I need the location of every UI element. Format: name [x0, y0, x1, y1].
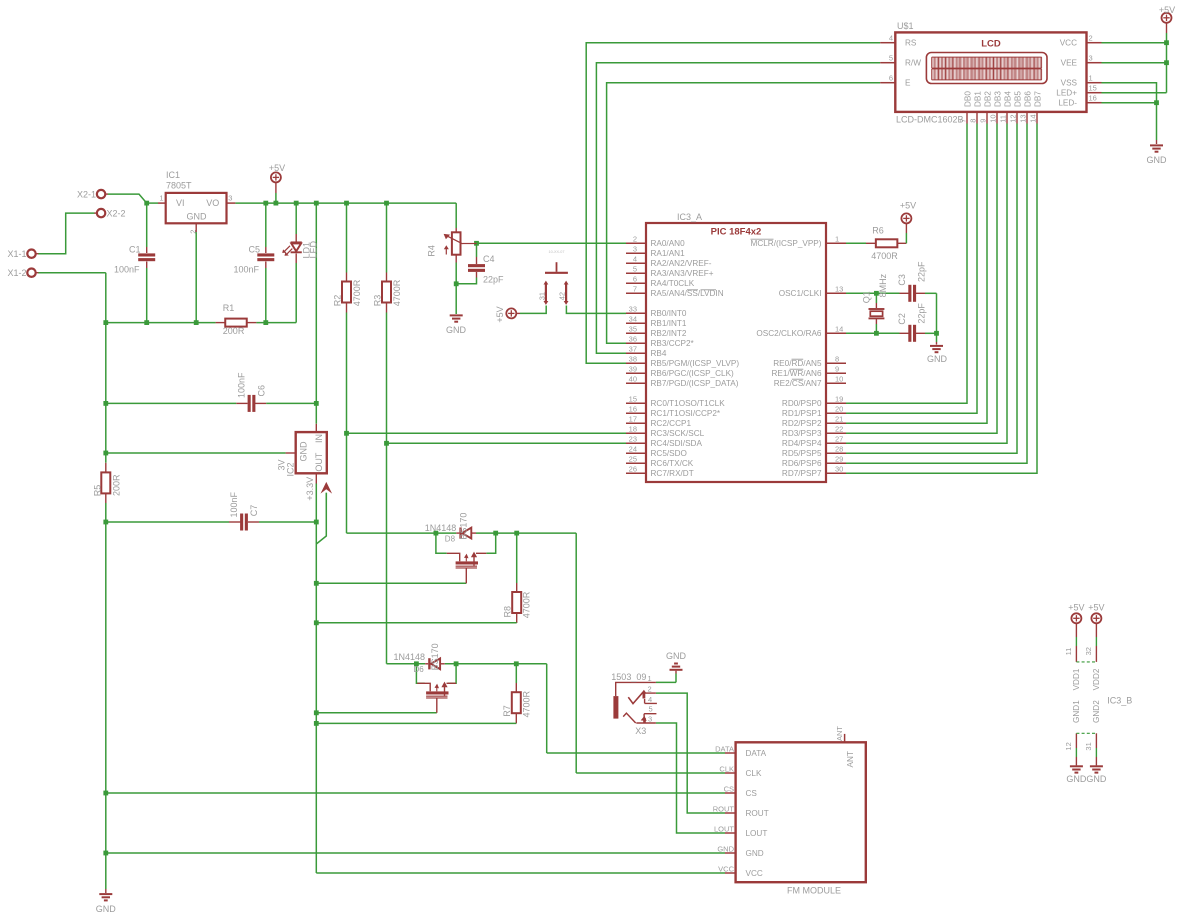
- svg-text:3: 3: [633, 245, 637, 254]
- svg-text:R8: R8: [502, 606, 512, 618]
- svg-text:VO: VO: [206, 198, 219, 208]
- svg-text:2: 2: [648, 685, 652, 694]
- svg-text:14: 14: [1029, 114, 1038, 122]
- svg-text:10: 10: [835, 375, 843, 384]
- svg-text:U$1: U$1: [897, 21, 914, 31]
- svg-text:35: 35: [629, 325, 637, 334]
- svg-text:42: 42: [558, 292, 567, 300]
- svg-text:RB5/PGM/(ICSP_VLVP): RB5/PGM/(ICSP_VLVP): [651, 359, 740, 368]
- svg-text:LOUT: LOUT: [714, 824, 734, 833]
- svg-text:8: 8: [969, 119, 978, 123]
- svg-text:3: 3: [228, 194, 232, 203]
- svg-text:BS170: BS170: [430, 643, 440, 670]
- svg-text:IC3_B: IC3_B: [1107, 696, 1132, 706]
- svg-text:18: 18: [629, 425, 637, 434]
- svg-text:1503_09: 1503_09: [611, 672, 646, 682]
- svg-text:RB1/INT1: RB1/INT1: [651, 319, 687, 328]
- svg-text:GND: GND: [1066, 774, 1087, 784]
- svg-text:1N4148: 1N4148: [393, 652, 425, 662]
- svg-text:5: 5: [633, 265, 637, 274]
- svg-text:24: 24: [629, 445, 637, 454]
- svg-text:1: 1: [835, 235, 839, 244]
- svg-text:12: 12: [1064, 742, 1073, 750]
- svg-text:LED-: LED-: [1058, 99, 1077, 108]
- svg-text:4: 4: [889, 34, 893, 43]
- svg-text:GND: GND: [666, 651, 687, 661]
- svg-text:31: 31: [537, 292, 546, 300]
- svg-text:+5V: +5V: [495, 306, 505, 322]
- svg-text:CS: CS: [724, 784, 734, 793]
- svg-text:GND2: GND2: [1092, 700, 1101, 723]
- svg-text:RA2/AN2/VREF-: RA2/AN2/VREF-: [651, 259, 712, 268]
- svg-text:C3: C3: [897, 274, 907, 286]
- svg-text:CLK: CLK: [719, 764, 734, 773]
- svg-text:4700R: 4700R: [871, 251, 898, 261]
- svg-text:26: 26: [629, 465, 637, 474]
- svg-text:R4: R4: [427, 245, 437, 257]
- svg-text:ANT: ANT: [846, 751, 855, 767]
- svg-text:30: 30: [835, 465, 843, 474]
- svg-text:37: 37: [629, 345, 637, 354]
- svg-text:RD5/PSP5: RD5/PSP5: [782, 449, 822, 458]
- svg-text:E: E: [905, 79, 911, 88]
- svg-text:DB4: DB4: [1004, 91, 1013, 107]
- svg-text:DB0: DB0: [964, 91, 973, 107]
- svg-text:DB2: DB2: [984, 91, 993, 107]
- svg-text:7805T: 7805T: [166, 181, 192, 191]
- svg-text:16: 16: [1089, 94, 1097, 103]
- svg-text:9: 9: [979, 119, 988, 123]
- svg-text:DATA: DATA: [715, 744, 734, 753]
- svg-text:D8: D8: [445, 534, 456, 543]
- svg-text:22pF: 22pF: [483, 275, 504, 285]
- svg-text:23: 23: [629, 435, 637, 444]
- svg-text:BS170: BS170: [459, 513, 469, 540]
- svg-text:VDD1: VDD1: [1072, 668, 1081, 690]
- svg-text:RC3/SCK/SCL: RC3/SCK/SCL: [651, 429, 705, 438]
- svg-text:RD4/PSP4: RD4/PSP4: [782, 439, 822, 448]
- svg-text:RA4/T0CLK: RA4/T0CLK: [651, 279, 695, 288]
- svg-text:5: 5: [649, 705, 653, 714]
- svg-text:12: 12: [1009, 114, 1018, 122]
- svg-text:200R: 200R: [223, 326, 245, 336]
- svg-text:RC7/RX/DT: RC7/RX/DT: [651, 469, 694, 478]
- svg-text:RD0/PSP0: RD0/PSP0: [782, 399, 822, 408]
- svg-text:100nF: 100nF: [233, 265, 259, 275]
- svg-text:20: 20: [835, 405, 843, 414]
- svg-text:6: 6: [889, 74, 893, 83]
- svg-text:28: 28: [835, 445, 843, 454]
- svg-text:+5V: +5V: [1159, 5, 1175, 15]
- svg-text:X2-1: X2-1: [77, 189, 96, 199]
- svg-text:100nF: 100nF: [229, 491, 239, 517]
- svg-text:IC2: IC2: [286, 462, 296, 476]
- svg-text:X2-2: X2-2: [107, 208, 126, 218]
- svg-text:32: 32: [1084, 647, 1093, 655]
- svg-text:OSC2/CLKO/RA6: OSC2/CLKO/RA6: [756, 329, 822, 338]
- svg-text:RC4/SDI/SDA: RC4/SDI/SDA: [651, 439, 703, 448]
- svg-text:RE0/RD/AN5: RE0/RD/AN5: [773, 359, 822, 368]
- svg-text:5: 5: [889, 54, 893, 63]
- svg-text:RA5/AN4/SS/LVDIN: RA5/AN4/SS/LVDIN: [651, 289, 724, 298]
- svg-text:8: 8: [835, 355, 839, 364]
- svg-text:RC1/T1OSI/CCP2*: RC1/T1OSI/CCP2*: [651, 409, 721, 418]
- svg-text:+5V: +5V: [1088, 603, 1104, 613]
- svg-text:2: 2: [633, 235, 637, 244]
- svg-text:RD1/PSP1: RD1/PSP1: [782, 409, 822, 418]
- svg-text:16: 16: [629, 405, 637, 414]
- svg-text:RC6/TX/CK: RC6/TX/CK: [651, 459, 694, 468]
- svg-text:LCD: LCD: [981, 39, 1001, 50]
- svg-text:R3: R3: [373, 295, 383, 307]
- svg-text:100nF: 100nF: [237, 372, 247, 398]
- svg-text:19: 19: [835, 395, 843, 404]
- svg-text:RC5/SDO: RC5/SDO: [651, 449, 687, 458]
- svg-text:17: 17: [629, 415, 637, 424]
- svg-text:OSC1/CLKI: OSC1/CLKI: [779, 289, 822, 298]
- svg-text:R5: R5: [93, 485, 103, 497]
- svg-text:Q1: Q1: [862, 291, 872, 303]
- svg-text:+5V: +5V: [269, 163, 285, 173]
- svg-text:VCC: VCC: [718, 864, 734, 873]
- svg-text:DB1: DB1: [974, 91, 983, 107]
- svg-text:RB2/INT2: RB2/INT2: [651, 329, 687, 338]
- svg-text:10: 10: [989, 114, 998, 122]
- svg-text:C2: C2: [897, 313, 907, 325]
- svg-text:LCD-DMC1602B: LCD-DMC1602B: [896, 114, 964, 124]
- svg-text:C4: C4: [483, 254, 495, 264]
- svg-text:27: 27: [835, 435, 843, 444]
- svg-text:25: 25: [629, 455, 637, 464]
- svg-text:11: 11: [999, 115, 1008, 123]
- svg-text:33: 33: [629, 305, 637, 314]
- svg-text:GND: GND: [927, 354, 948, 364]
- svg-text:+3.3V: +3.3V: [305, 477, 315, 501]
- svg-text:X1-2: X1-2: [7, 268, 26, 278]
- svg-text:IN: IN: [314, 434, 324, 443]
- svg-text:ROUT: ROUT: [746, 809, 769, 818]
- svg-text:13: 13: [835, 285, 843, 294]
- svg-text:100nF: 100nF: [114, 265, 140, 275]
- svg-text:GND: GND: [446, 325, 467, 335]
- svg-text:FM MODULE: FM MODULE: [787, 885, 841, 895]
- svg-text:RA1/AN1: RA1/AN1: [651, 249, 686, 258]
- svg-text:1: 1: [159, 194, 163, 203]
- svg-text:4700R: 4700R: [392, 279, 402, 306]
- svg-text:IC3_A: IC3_A: [677, 212, 702, 222]
- svg-text:RB7/PGD/(ICSP_DATA): RB7/PGD/(ICSP_DATA): [651, 379, 739, 388]
- svg-text:PIC 18F4x2: PIC 18F4x2: [711, 227, 762, 238]
- svg-text:3: 3: [648, 715, 652, 724]
- svg-text:4700R: 4700R: [521, 690, 531, 717]
- svg-text:LOUT: LOUT: [746, 829, 768, 838]
- svg-text:22pF: 22pF: [917, 261, 927, 282]
- svg-text:RB3/CCP2*: RB3/CCP2*: [651, 339, 695, 348]
- svg-text:CS: CS: [746, 789, 758, 798]
- svg-text:2: 2: [1089, 34, 1093, 43]
- svg-text:3: 3: [1089, 54, 1093, 63]
- svg-text:11: 11: [1064, 648, 1073, 656]
- svg-text:CLK: CLK: [746, 769, 762, 778]
- svg-text:LED+: LED+: [1056, 89, 1077, 98]
- svg-text:RC2/CCP1: RC2/CCP1: [651, 419, 692, 428]
- svg-text:29: 29: [835, 455, 843, 464]
- svg-text:VDD2: VDD2: [1092, 668, 1101, 690]
- svg-text:DB3: DB3: [994, 91, 1003, 107]
- svg-text:13: 13: [1019, 114, 1028, 122]
- svg-text:1N4148: 1N4148: [425, 523, 457, 533]
- svg-text:RE1/WR/AN6: RE1/WR/AN6: [771, 369, 821, 378]
- svg-text:31: 31: [1084, 742, 1093, 750]
- svg-text:10-XX-07: 10-XX-07: [548, 250, 564, 254]
- svg-text:GND1: GND1: [1072, 700, 1081, 723]
- svg-text:VI: VI: [176, 198, 185, 208]
- svg-text:R2: R2: [333, 295, 343, 307]
- svg-text:RB4: RB4: [651, 349, 667, 358]
- svg-text:4: 4: [633, 255, 637, 264]
- svg-text:22pF: 22pF: [917, 303, 927, 324]
- svg-text:38: 38: [629, 355, 637, 364]
- svg-text:C7: C7: [249, 505, 259, 517]
- svg-text:RA0/AN0: RA0/AN0: [651, 239, 686, 248]
- svg-text:ANT: ANT: [835, 726, 844, 741]
- svg-text:1: 1: [1089, 74, 1093, 83]
- svg-text:DB5: DB5: [1014, 91, 1023, 107]
- svg-text:GND: GND: [1086, 774, 1107, 784]
- svg-text:RB0/INT0: RB0/INT0: [651, 309, 687, 318]
- svg-text:7: 7: [633, 285, 637, 294]
- svg-text:GND: GND: [299, 441, 309, 462]
- svg-text:VSS: VSS: [1061, 79, 1078, 88]
- svg-text:ROUT: ROUT: [713, 804, 735, 813]
- svg-text:R7: R7: [502, 705, 512, 717]
- svg-text:VCC: VCC: [1060, 39, 1077, 48]
- svg-text:GND: GND: [746, 849, 764, 858]
- svg-text:GND: GND: [187, 212, 208, 222]
- svg-text:R6: R6: [872, 225, 884, 235]
- svg-text:+5V: +5V: [900, 201, 916, 211]
- svg-text:LED: LED: [308, 240, 318, 258]
- svg-text:X1-1: X1-1: [7, 249, 26, 259]
- svg-text:D6: D6: [414, 665, 425, 674]
- svg-text:200R: 200R: [112, 474, 122, 496]
- svg-text:34: 34: [629, 315, 637, 324]
- svg-text:40: 40: [629, 375, 637, 384]
- svg-text:GND: GND: [717, 844, 734, 853]
- svg-text:C1: C1: [129, 244, 141, 254]
- svg-text:6: 6: [633, 275, 637, 284]
- svg-text:15: 15: [629, 395, 637, 404]
- svg-text:8MHz: 8MHz: [878, 273, 888, 297]
- svg-text:RB6/PGC/(ICSP_CLK): RB6/PGC/(ICSP_CLK): [651, 369, 735, 378]
- svg-text:C5: C5: [248, 244, 260, 254]
- svg-text:39: 39: [629, 365, 637, 374]
- svg-text:21: 21: [835, 415, 843, 424]
- svg-text:9: 9: [835, 365, 839, 374]
- svg-text:OUT: OUT: [314, 452, 324, 472]
- svg-text:RD6/PSP6: RD6/PSP6: [782, 459, 822, 468]
- svg-text:2: 2: [189, 230, 198, 234]
- svg-text:DB6: DB6: [1024, 91, 1033, 107]
- svg-text:22: 22: [835, 425, 843, 434]
- svg-text:4: 4: [648, 695, 652, 704]
- svg-text:C6: C6: [257, 385, 267, 397]
- svg-text:RS: RS: [905, 39, 917, 48]
- svg-text:RA3/AN3/VREF+: RA3/AN3/VREF+: [651, 269, 714, 278]
- svg-text:15: 15: [1089, 84, 1097, 93]
- svg-text:1: 1: [648, 674, 652, 683]
- svg-text:R/W: R/W: [905, 59, 921, 68]
- svg-text:RD7/PSP7: RD7/PSP7: [782, 469, 822, 478]
- svg-text:4700R: 4700R: [352, 279, 362, 306]
- svg-text:36: 36: [629, 335, 637, 344]
- svg-text:RE2/CS/AN7: RE2/CS/AN7: [774, 379, 822, 388]
- svg-text:R1: R1: [223, 303, 235, 313]
- svg-text:IC1: IC1: [166, 170, 180, 180]
- svg-text:GND: GND: [96, 904, 117, 914]
- svg-text:RD2/PSP2: RD2/PSP2: [782, 419, 822, 428]
- svg-text:GND: GND: [1147, 155, 1168, 165]
- svg-text:DATA: DATA: [746, 749, 767, 758]
- svg-text:4700R: 4700R: [522, 591, 532, 618]
- svg-text:X3: X3: [635, 726, 646, 736]
- svg-text:MCLR/(ICSP_VPP): MCLR/(ICSP_VPP): [751, 239, 822, 248]
- svg-text:DB7: DB7: [1034, 91, 1043, 107]
- svg-text:+5V: +5V: [1068, 603, 1084, 613]
- svg-text:VEE: VEE: [1061, 59, 1078, 68]
- svg-text:RC0/T1OSO/T1CLK: RC0/T1OSO/T1CLK: [651, 399, 726, 408]
- svg-text:14: 14: [835, 325, 843, 334]
- svg-text:VCC: VCC: [746, 869, 763, 878]
- svg-text:RD3/PSP3: RD3/PSP3: [782, 429, 822, 438]
